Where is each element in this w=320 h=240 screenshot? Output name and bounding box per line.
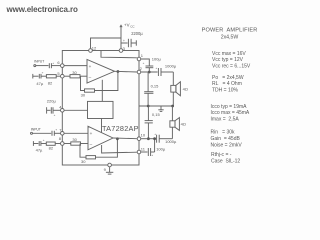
label pin 4 (59, 105, 62, 110)
label C4 220u (47, 99, 57, 117)
spec line Po (212, 75, 244, 81)
node VCC (124, 23, 135, 29)
label pin 8 (59, 136, 62, 141)
ground GND mid rail (158, 106, 163, 111)
svg-text:47µ: 47µ (36, 81, 43, 86)
resistor R5 30 input 2 (71, 142, 88, 145)
node C7 junction on pin2 wire (148, 71, 151, 74)
capacitor C10 0.15 zobel 2 (145, 106, 153, 139)
wire LS2 top to mid rail (171, 106, 173, 121)
pin 9 (108, 163, 112, 167)
capacitor C11 1000u output 2 (157, 135, 173, 143)
svg-text:30: 30 (81, 159, 86, 164)
label pin 12 (92, 45, 97, 50)
label R3 30 (81, 93, 86, 98)
wire VCC supply (120, 25, 122, 49)
label R6 30 (81, 159, 86, 164)
svg-text:+: + (156, 66, 158, 70)
resistor R2 30 input 1 (70, 75, 87, 78)
svg-text:+: + (154, 132, 156, 136)
speaker LS2 (170, 118, 180, 131)
svg-text:30: 30 (72, 70, 77, 75)
pin 11 (137, 150, 141, 154)
label R5 30 (72, 137, 77, 142)
wire feedback 2 right branch (96, 139, 118, 157)
node rail junction A (147, 105, 150, 108)
spec line RL (212, 81, 242, 87)
label pin 7 (59, 127, 62, 132)
wire mid ground rail (139, 105, 173, 107)
title POWER AMPLIFIER (202, 27, 258, 33)
wire rect bottom stub (101, 119, 103, 133)
op-amp U1b plus input marker (90, 131, 93, 136)
node C10 junction on pin10 wire (147, 137, 150, 140)
svg-text:Vcc typ = 12V: Vcc typ = 12V (212, 57, 244, 63)
internal block (bias/protection) (88, 101, 114, 118)
svg-text:100µ: 100µ (152, 57, 162, 62)
svg-text:Gain = 45dB: Gain = 45dB (211, 136, 241, 142)
svg-text:2: 2 (140, 66, 143, 71)
svg-text:INPUT: INPUT (34, 60, 45, 64)
spec line Rthj-c (211, 152, 232, 158)
label pin 9 (104, 167, 107, 172)
svg-text:Vcc max = 16V: Vcc max = 16V (212, 51, 246, 57)
svg-text:Rin = 30k: Rin = 30k (211, 130, 236, 136)
svg-text:2200µ: 2200µ (131, 31, 143, 36)
wire pin11 to C12 (141, 151, 147, 153)
pin 6 (61, 64, 65, 68)
node feedback 1 junction (117, 70, 120, 73)
svg-text:+: + (123, 39, 125, 43)
op-amp U1a minus input marker (89, 74, 92, 79)
wire pin7 to opamp2 (64, 132, 88, 134)
svg-text:9: 9 (104, 167, 107, 172)
wire opamp2 output to pin 10 (113, 137, 137, 140)
speaker LS1 (171, 82, 181, 96)
wire internal bootstrap to pin 1 (101, 51, 137, 58)
wire C8 to speaker LS1 (172, 72, 174, 85)
node feedback 2 junction (116, 137, 119, 140)
svg-text:0,15: 0,15 (151, 84, 160, 89)
node input 2 terminal (31, 132, 33, 134)
svg-text:+: + (55, 127, 57, 131)
capacitor C6 47u with terminal (33, 141, 46, 146)
op-amp U1b (88, 126, 113, 150)
label LS1 4 ohm (183, 86, 188, 91)
label LS2 4 ohm (181, 121, 186, 126)
capacitor C2 input coupling 1 (49, 63, 60, 68)
label R2 30 (72, 70, 77, 75)
spec line Rin (211, 130, 236, 136)
svg-text:+: + (151, 153, 153, 157)
svg-text:TDH = 10%: TDH = 10% (212, 88, 239, 94)
wire pin8 to R5 (64, 143, 70, 145)
resistor R1 82 (46, 75, 60, 78)
resistor R6 30 feedback 2 (86, 156, 96, 159)
pin 5 (61, 74, 65, 78)
spec line Noise (211, 142, 243, 148)
svg-text:4Ω: 4Ω (183, 86, 188, 91)
label C11 1000u (154, 132, 177, 144)
spec line Icco typ (211, 104, 248, 110)
capacitor C5 input coupling 2 (52, 131, 60, 136)
wire pin12 to VCC loop (91, 38, 122, 48)
pin 10 (137, 137, 141, 141)
spec line Vcc rec (212, 64, 251, 70)
svg-text:Case SIL-12: Case SIL-12 (211, 158, 240, 164)
svg-text:+: + (89, 64, 92, 69)
svg-text:POWER AMPLIFIER: POWER AMPLIFIER (202, 27, 258, 33)
svg-text:1: 1 (141, 53, 144, 58)
wire input2 to C5 (33, 132, 52, 134)
label pin 6 (57, 60, 60, 65)
capacitor C9 0.15 zobel 1 (144, 72, 153, 106)
label INPUT 2 (31, 128, 42, 132)
wire pin4 to block (64, 109, 87, 111)
svg-text:www.electronica.ro: www.electronica.ro (6, 5, 78, 14)
capacitor C3 47u with terminal (33, 74, 47, 79)
wire pin2 to C8 (141, 71, 158, 73)
spec line Vcc typ (212, 57, 244, 63)
wire C11 to speaker LS2 (171, 127, 173, 139)
pin 12 (89, 49, 93, 53)
svg-text:+: + (52, 61, 54, 65)
wire rect top stub (101, 80, 103, 102)
label pin 1 (141, 53, 144, 58)
label C10 0.15 (152, 112, 161, 117)
svg-text:INPUT: INPUT (31, 128, 42, 132)
svg-text:220µ: 220µ (47, 99, 57, 104)
wire opamp1 output to pin 2 (115, 70, 137, 73)
label C1 2200u (123, 31, 143, 43)
capacitor C7 100u bootstrap 1 (146, 66, 154, 72)
capacitor C4 220u (47, 107, 61, 113)
svg-text:+: + (42, 70, 44, 74)
label C3 47u (36, 70, 43, 85)
svg-text:+: + (43, 138, 45, 142)
svg-text:12: 12 (92, 45, 97, 50)
label C5 plus (55, 127, 57, 131)
IC U1 TA7282AP outline (62, 51, 139, 166)
wire pin5 to R2 (64, 75, 70, 77)
wire pin6 to opamp (64, 65, 87, 67)
pin 2 (137, 70, 141, 74)
svg-text:82: 82 (48, 80, 53, 85)
label C8 1000u (156, 63, 177, 69)
op-amp U1a (87, 60, 115, 84)
capacitor C1 2200u (121, 39, 136, 47)
svg-text:47µ: 47µ (36, 148, 43, 153)
site logo text (6, 5, 78, 14)
label pin 5 (57, 71, 60, 76)
svg-text:+V: +V (124, 23, 130, 28)
svg-text:RL = 4 Ohm: RL = 4 Ohm (212, 81, 242, 87)
svg-text:Rthj-c = -: Rthj-c = - (211, 152, 232, 158)
ground GND pin 9 (106, 167, 113, 174)
label pin 11 (141, 146, 146, 151)
svg-text:2x4,5W: 2x4,5W (221, 34, 239, 40)
label pin 3 (123, 46, 126, 51)
svg-text:30: 30 (81, 93, 86, 98)
spec line Imax (211, 117, 240, 123)
label C6 47u (36, 138, 45, 153)
svg-text:1000µ: 1000µ (165, 63, 177, 68)
pin 3 (119, 49, 123, 53)
svg-text:+: + (143, 61, 145, 65)
op-amp U1a plus input marker (89, 64, 92, 69)
capacitor C8 1000u output 1 (158, 68, 173, 76)
svg-text:Po = 2x4,5W: Po = 2x4,5W (212, 75, 244, 81)
node rail junction B (171, 105, 174, 108)
svg-text:CC: CC (130, 25, 135, 29)
svg-text:6: 6 (57, 60, 60, 65)
svg-text:Icco typ = 19mA: Icco typ = 19mA (211, 104, 248, 110)
wire pin1 to C7 (141, 59, 149, 66)
svg-text:+: + (54, 113, 56, 117)
node C12 junction on pin10 wire (153, 137, 156, 140)
label C9 0.15 (151, 84, 160, 89)
wire feedback 1 left branch (81, 76, 85, 90)
svg-text:11: 11 (141, 146, 146, 151)
label C2 plus (52, 61, 54, 65)
svg-text:+: + (90, 131, 93, 136)
label pin 2 (140, 66, 143, 71)
svg-text:8: 8 (59, 136, 62, 141)
pin 7 (61, 132, 65, 136)
label INPUT 1 (34, 60, 45, 64)
wire internal to pin 11 (102, 145, 137, 153)
svg-text:Imax = 2,5A: Imax = 2,5A (211, 117, 240, 123)
svg-text:5: 5 (57, 71, 60, 76)
svg-text:–: – (89, 74, 92, 79)
svg-text:4Ω: 4Ω (181, 121, 186, 126)
op-amp U1b minus input marker (90, 142, 93, 147)
resistor R4 82 (46, 142, 60, 145)
pin 8 (61, 142, 65, 146)
wire input1 to C2 (36, 65, 49, 67)
svg-text:0,15: 0,15 (152, 112, 161, 117)
svg-text:82: 82 (49, 145, 54, 150)
title 2x4,5W (221, 34, 239, 40)
svg-text:30: 30 (72, 137, 77, 142)
label R1 82 (48, 80, 53, 85)
label pin 10 (141, 133, 146, 138)
svg-text:–: – (90, 142, 93, 147)
label C7 100u (143, 57, 162, 65)
resistor R3 30 feedback 1 (85, 89, 95, 92)
spec line Gain (211, 136, 241, 142)
svg-text:100µ: 100µ (156, 146, 166, 151)
spec line Icco max (211, 110, 250, 116)
spec line Case (211, 158, 240, 164)
spec line Vcc max (212, 51, 246, 57)
wire feedback 1 right branch (95, 72, 118, 91)
svg-text:10: 10 (141, 133, 146, 138)
svg-text:TA7282AP: TA7282AP (102, 124, 139, 133)
label R4 82 (49, 145, 54, 150)
wire feedback 2 left branch (80, 144, 86, 158)
label C12 100u (151, 146, 165, 157)
wire LS1 to mid rail (172, 92, 174, 106)
svg-text:1000µ: 1000µ (165, 139, 177, 144)
pin 4 (61, 109, 65, 113)
IC label TA7282AP (102, 124, 139, 133)
capacitor C12 100u bootstrap 2 (148, 139, 154, 156)
spec line TDH (212, 88, 239, 94)
node input 1 terminal (34, 65, 36, 67)
svg-text:Noise = 2mkV: Noise = 2mkV (211, 142, 243, 148)
svg-text:Icco max = 45mA: Icco max = 45mA (211, 110, 250, 116)
svg-text:Vcc rec = 6...15V: Vcc rec = 6...15V (212, 64, 251, 70)
pin 1 (137, 57, 141, 61)
wire pin10 to C11 (141, 138, 156, 140)
